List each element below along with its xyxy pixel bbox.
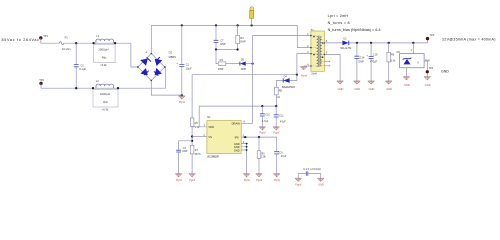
svg-text:<0.3k: <0.3k [100,63,107,67]
svg-text:R4: R4 [240,36,244,40]
inductor L2 [92,87,94,89]
svg-text:DRAIN: DRAIN [232,122,240,126]
svg-text:TP1: TP1 [43,34,48,38]
wire secondary return [324,54,340,80]
capacitor C14 DNP output [356,43,358,81]
transformer stub pins lower right [324,60,329,66]
svg-text:Pgnd: Pgnd [301,73,308,77]
wire input top rail [41,42,131,44]
svg-text:<0.3k: <0.3k [102,108,109,112]
ground GND zener [403,76,410,80]
svg-text:F1: F1 [65,36,69,40]
resistor R5 1.0k on IPK [258,137,260,173]
wire bias rail [192,74,297,76]
svg-text:C13 1000pF: C13 1000pF [303,167,321,171]
test point TP4 chain [424,61,427,76]
wire [226,63,240,65]
ground Pgnd C4 [175,173,182,177]
wire zener bottom to GND [406,68,408,77]
ground GND C15 [368,81,375,85]
svg-text:C11: C11 [279,114,284,117]
svg-text:BAV21WS-FP: BAV21WS-FP [282,86,296,89]
svg-text:10 ohm: 10 ohm [62,47,72,51]
wire VDD rail [199,106,276,127]
svg-text:28.7k: 28.7k [195,153,202,156]
ground GND R9 [385,81,392,85]
svg-text:47µF: 47µF [281,155,287,158]
svg-text:Lpri = 2mH: Lpri = 2mH [328,14,349,18]
wire clamp bottom join [216,49,238,51]
ground Pgnd [179,96,186,100]
svg-text:GND: GND [369,87,375,91]
svg-text:GND: GND [338,87,344,91]
node output junctions [356,42,358,44]
capacitor C11 VDD [275,106,277,126]
svg-text:0.3k: 0.3k [391,59,396,62]
diode D4 bias [283,78,289,83]
ground Pgnd bias [300,66,307,70]
node drain-clamp junction [252,63,254,65]
svg-text:1000µH: 1000µH [98,47,108,51]
wire bottom rail to bridge [164,67,167,88]
probe (yellow) on bus [251,18,253,25]
svg-text:DNP: DNP [183,150,188,153]
svg-text:UCC28910DR: UCC28910DR [207,155,219,158]
node Pgnd junction [181,94,183,96]
svg-text:Rdc: Rdc [103,100,108,104]
ground Pgnd IC [243,173,250,177]
op IC U1 UCC28910 [204,115,246,158]
ground Pgnd R7 [189,173,196,177]
wire bias diode branch [276,75,297,88]
svg-text:Pgnd: Pgnd [179,100,186,104]
svg-text:Pgnd: Pgnd [189,178,196,182]
node bias junction [296,74,298,76]
svg-text:C1: C1 [186,62,190,66]
svg-text:C14: C14 [360,56,365,59]
svg-text:C2: C2 [80,63,84,67]
svg-text:TP3: TP3 [430,33,435,37]
svg-text:GND: GND [234,148,240,152]
wire input bottom rail [41,87,166,89]
wire VS to pin [192,136,207,138]
svg-text:71.5k: 71.5k [193,126,200,129]
svg-text:Pgnd: Pgnd [259,131,266,135]
svg-text:Pgnd: Pgnd [273,131,280,135]
capacitor C12 on IPK [276,154,278,173]
wire bridge bottom to primary ground [151,81,182,96]
test point TP1 [39,36,42,39]
capacitor C2 [75,43,77,88]
ground Pgnd Y-cap left [295,178,302,182]
svg-text:1.0k: 1.0k [261,156,266,159]
svg-text:10µF: 10µF [186,66,192,70]
svg-text:DNP: DNP [218,67,224,71]
svg-text:L2: L2 [96,79,99,83]
svg-text:U1: U1 [207,115,211,119]
svg-text:+: + [176,61,178,65]
svg-text:N_turns = 8: N_turns = 8 [328,21,350,25]
svg-text:DNP: DNP [358,61,364,64]
svg-text:2mH: 2mH [311,71,317,75]
ground GND Y-cap right [317,178,324,182]
wire diode to drain node [246,63,253,65]
svg-text:4.7µF: 4.7µF [262,120,269,123]
diode D1 output [342,41,348,46]
capacitor C15 470uF output [370,43,372,81]
wire drain vertical and primary top feed [253,36,310,124]
svg-text:1000µH: 1000µH [100,92,110,96]
wire bias winding bottom to Pgnd [304,65,311,67]
svg-text:+: + [145,50,147,54]
wire top rail to bridge [131,43,138,67]
bridge rectifier D2 [137,50,176,81]
resistor R9 output load [388,43,390,81]
wire secondary output rail [324,42,427,44]
svg-text:DNP: DNP [220,42,226,46]
resistor R8 bias 10 [275,87,279,95]
svg-text:0.1µF: 0.1µF [79,67,86,71]
resistor R3 clamp DNP [218,62,226,65]
inductor L1 [92,42,94,44]
svg-text:N_turns_bias (Npri/Nbias) = 6.: N_turns_bias (Npri/Nbias) = 6.4 [328,28,381,32]
svg-text:D2: D2 [169,50,173,54]
svg-text:MB6S: MB6S [169,55,177,59]
diode D5 clamp DNP [239,62,241,66]
ground Pgnd C12 [273,173,280,177]
svg-text:DNP: DNP [240,39,246,43]
test point TP3 [427,40,429,43]
svg-text:GND: GND [404,83,410,87]
svg-text:VS: VS [208,135,212,139]
test point TP2 [39,82,42,85]
resistor R7 28.7k [190,145,194,154]
capacitor C4 DNP on VS [179,141,193,174]
svg-text:L1: L1 [96,34,99,38]
ground Pgnd C10 [259,127,266,131]
svg-text:Pgnd: Pgnd [295,182,302,186]
capacitor C7 clamp DNP [215,25,217,49]
zener D3 module [412,43,414,54]
wire DRAIN pin [241,122,252,124]
svg-text:IPK: IPK [235,135,240,139]
wire clamp to RD leg [216,50,218,64]
resistor R4 clamp DNP [237,25,239,49]
svg-text:SS1-0x-TM: SS1-0x-TM [340,47,351,50]
svg-text:GND: GND [425,83,431,87]
svg-text:D5: D5 [241,57,245,61]
ground GND secondary [337,81,344,85]
svg-text:GND: GND [318,182,324,186]
svg-text:Pgnd: Pgnd [176,178,183,182]
ground Pgnd R5 [256,173,263,177]
wire bus to primary bottom [297,25,310,47]
svg-text:C15: C15 [373,54,378,57]
svg-text:Pgnd: Pgnd [256,178,263,182]
node junction on top rail [75,42,77,44]
wire GND pins bus [241,144,246,174]
wire bus rail [151,24,297,26]
wire bias resistor to VDD rail [275,95,277,106]
svg-text:TP4: TP4 [429,67,434,70]
svg-text:R3: R3 [220,58,224,62]
svg-text:VDD: VDD [208,125,214,129]
fuse F1 [59,42,64,45]
node VS junction [191,135,193,137]
svg-text:12V@350mA (max = 400mA): 12V@350mA (max = 400mA) [442,38,496,42]
svg-text:Rdc: Rdc [102,55,107,59]
wire bias winding top to bias rail [297,54,311,75]
wire VS chain from bias rail [191,75,193,174]
svg-text:Pgnd: Pgnd [274,178,281,182]
svg-text:TP2: TP2 [39,78,44,82]
ground GND TP4 [424,76,431,80]
capacitor C1 bus [181,25,183,95]
svg-text:Pgnd: Pgnd [244,178,251,182]
svg-text:470µF: 470µF [370,60,378,63]
ground Pgnd C11 [273,127,280,131]
svg-text:GND: GND [354,87,360,91]
svg-text:GND: GND [386,87,392,91]
ground GND C14 [354,81,361,85]
svg-text:85Vac to 264Vac: 85Vac to 264Vac [2,38,40,42]
svg-text:C10: C10 [265,114,270,117]
wire bridge top to bus rail [150,25,152,53]
capacitor C10 VDD [261,106,263,126]
resistor R6 71.5k [190,118,194,126]
wire IPK rail [241,137,277,151]
svg-text:47µF: 47µF [280,120,286,123]
svg-text:DNP: DNP [241,67,247,71]
transformer T1 [307,28,328,76]
svg-text:GND: GND [441,69,449,73]
